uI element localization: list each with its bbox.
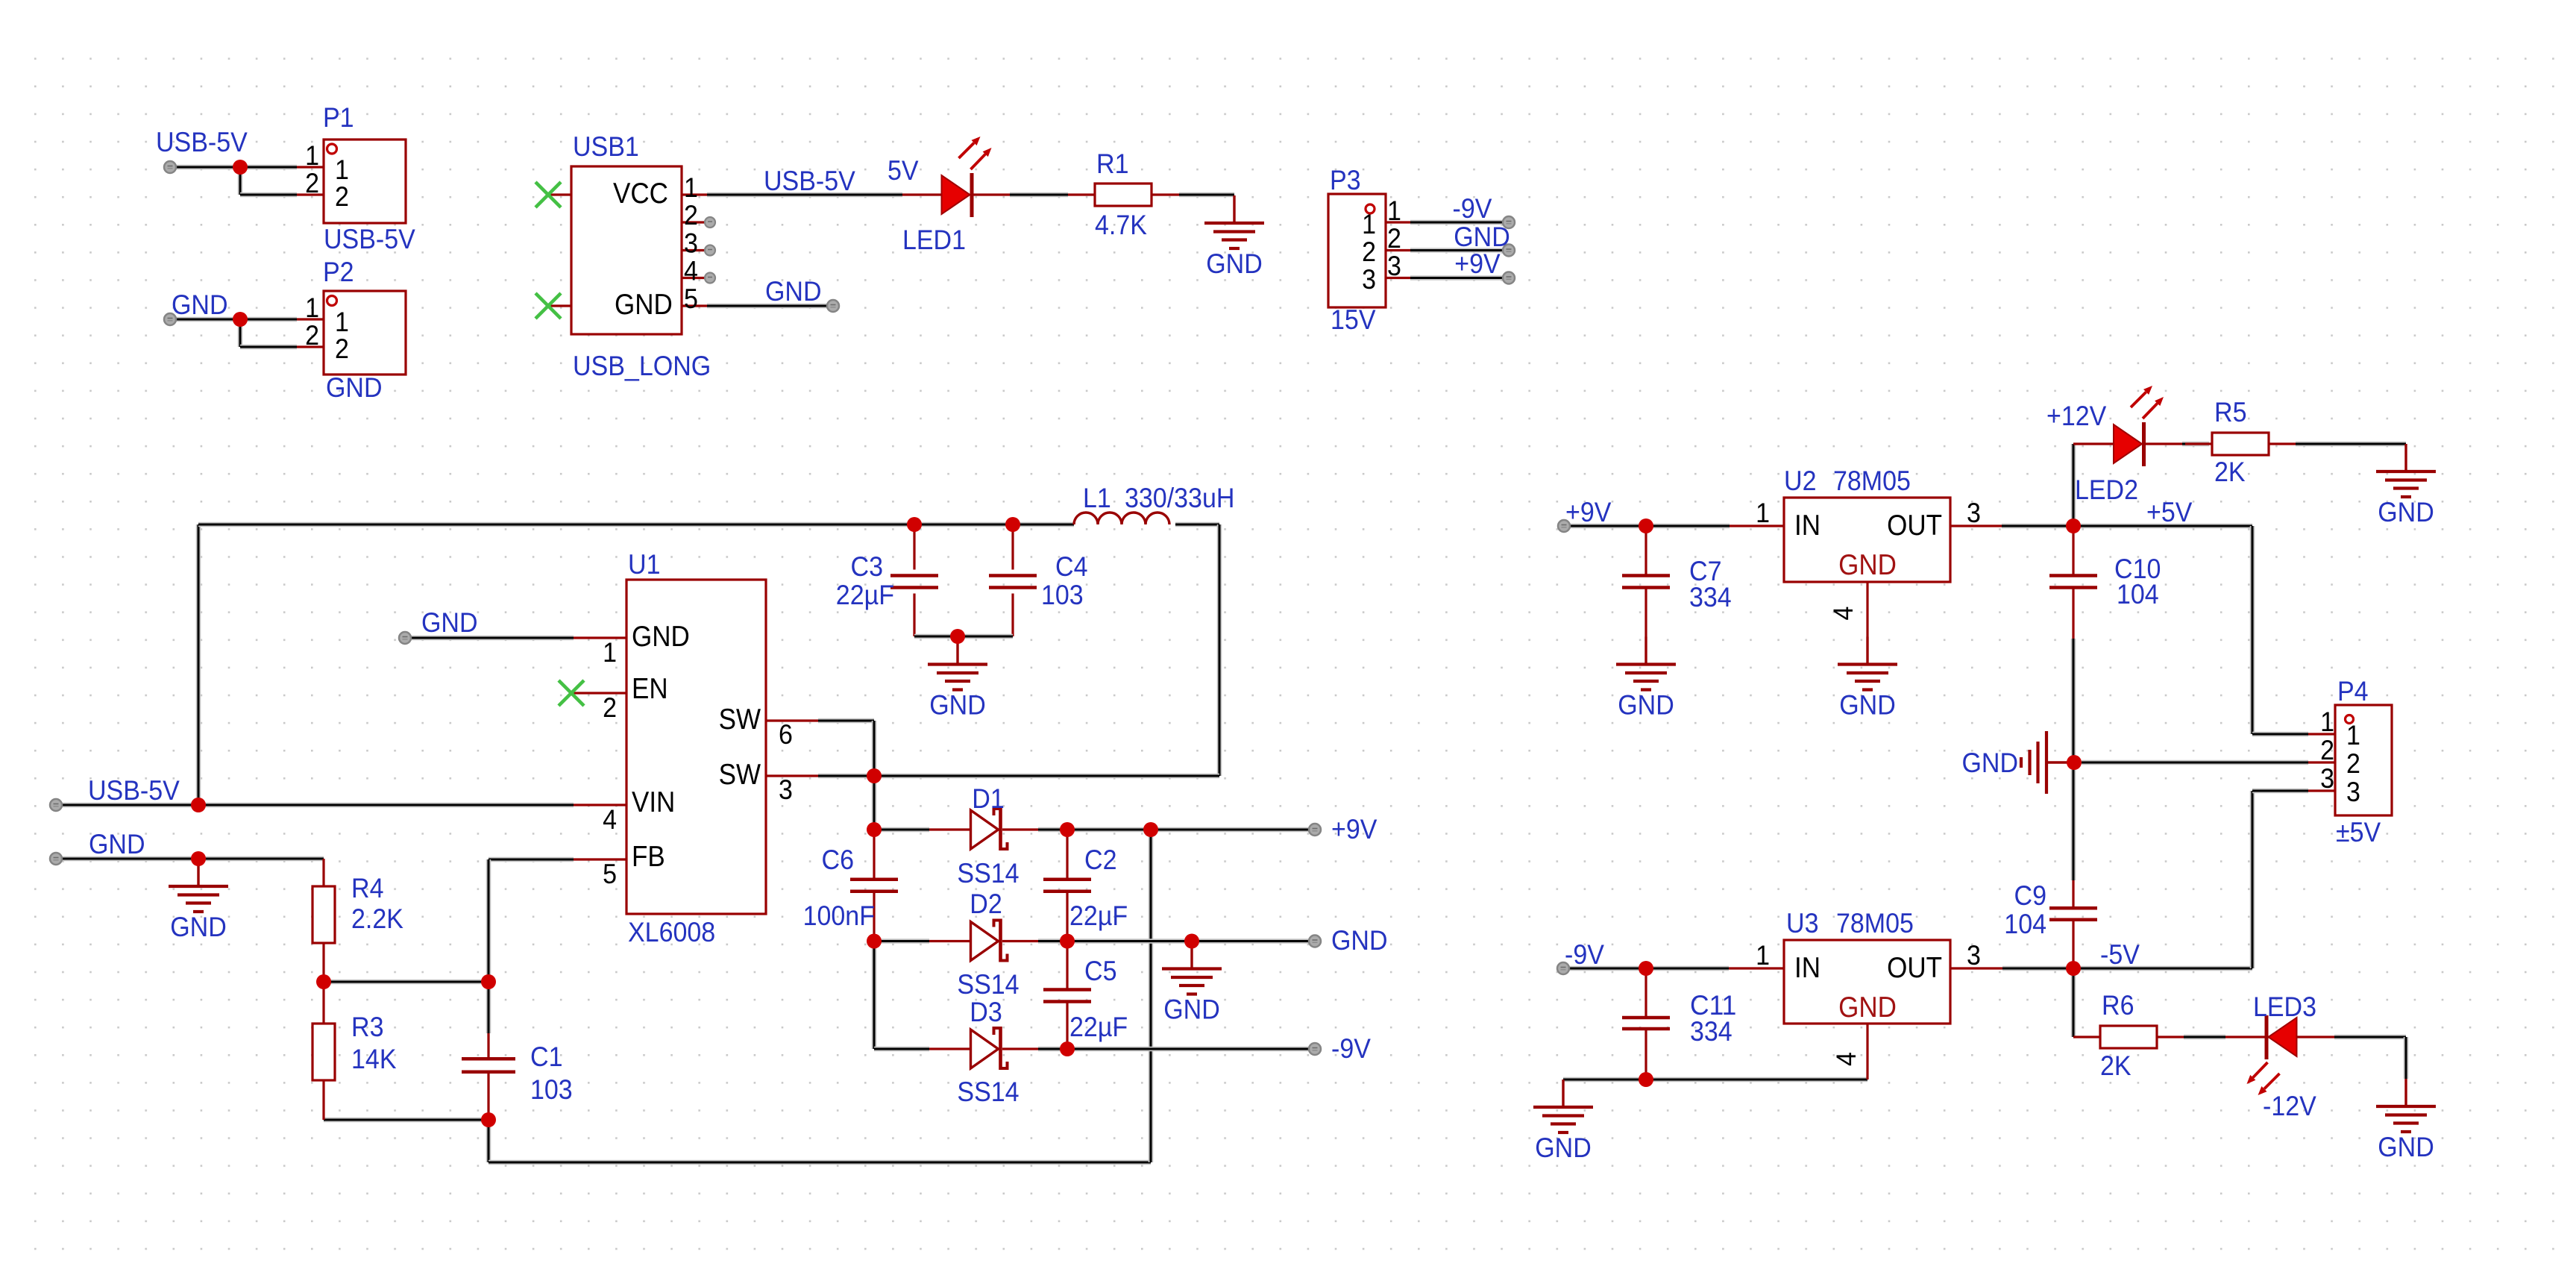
svg-text:3: 3 — [1967, 939, 1981, 971]
svg-text:USB-5V: USB-5V — [764, 165, 855, 196]
svg-text:5: 5 — [684, 283, 698, 314]
svg-text:2: 2 — [2320, 734, 2334, 765]
svg-text:GND: GND — [1839, 689, 1896, 721]
svg-text:2: 2 — [335, 181, 349, 212]
svg-text:103: 103 — [1041, 579, 1084, 610]
svg-text:GND: GND — [1163, 994, 1220, 1025]
svg-text:22µF: 22µF — [836, 579, 894, 610]
svg-text:+9V: +9V — [1331, 813, 1377, 845]
svg-text:SW: SW — [719, 759, 761, 791]
svg-text:1: 1 — [305, 140, 319, 171]
svg-text:3: 3 — [684, 228, 698, 259]
svg-text:22µF: 22µF — [1069, 900, 1128, 931]
svg-text:78M05: 78M05 — [1833, 465, 1911, 496]
svg-text:D3: D3 — [970, 996, 1002, 1027]
svg-text:USB_LONG: USB_LONG — [573, 350, 711, 381]
svg-text:R5: R5 — [2214, 396, 2247, 427]
svg-text:SS14: SS14 — [957, 1076, 1019, 1107]
svg-text:GND: GND — [1838, 991, 1897, 1024]
svg-text:3: 3 — [1967, 497, 1981, 528]
svg-text:104: 104 — [2117, 578, 2159, 610]
svg-text:2K: 2K — [2214, 456, 2246, 487]
svg-text:C2: C2 — [1084, 844, 1117, 875]
svg-text:EN: EN — [632, 673, 668, 705]
svg-text:GND: GND — [615, 289, 673, 321]
svg-text:LED3: LED3 — [2253, 991, 2316, 1022]
svg-text:GND: GND — [632, 621, 690, 653]
svg-text:P4: P4 — [2337, 675, 2369, 707]
svg-text:GND: GND — [1618, 689, 1674, 721]
svg-text:P1: P1 — [323, 101, 354, 133]
svg-text:4: 4 — [603, 803, 617, 835]
svg-text:C5: C5 — [1084, 955, 1117, 986]
svg-text:C9: C9 — [2014, 880, 2047, 911]
svg-text:USB-5V: USB-5V — [88, 774, 180, 806]
svg-text:2.2K: 2.2K — [351, 903, 403, 934]
svg-text:1: 1 — [603, 636, 617, 668]
svg-text:OUT: OUT — [1887, 952, 1942, 984]
svg-text:IN: IN — [1794, 952, 1821, 984]
svg-text:1: 1 — [2346, 719, 2360, 751]
svg-text:15V: 15V — [1331, 304, 1376, 335]
svg-text:USB-5V: USB-5V — [324, 223, 415, 254]
svg-text:LED2: LED2 — [2075, 474, 2138, 505]
svg-text:D1: D1 — [972, 783, 1005, 814]
svg-text:SS14: SS14 — [957, 857, 1019, 889]
svg-text:2: 2 — [335, 333, 349, 364]
svg-text:2K: 2K — [2100, 1050, 2132, 1081]
svg-text:334: 334 — [1690, 1015, 1732, 1047]
svg-text:2: 2 — [1387, 222, 1401, 254]
svg-text:3: 3 — [1387, 250, 1401, 281]
svg-text:R6: R6 — [2102, 989, 2134, 1021]
svg-text:14K: 14K — [351, 1043, 397, 1074]
svg-text:USB1: USB1 — [573, 131, 639, 162]
svg-text:GND: GND — [1206, 248, 1263, 279]
svg-text:-9V: -9V — [1331, 1033, 1371, 1064]
svg-text:1: 1 — [1756, 497, 1770, 528]
svg-text:GND: GND — [170, 911, 227, 942]
svg-text:100nF: 100nF — [803, 900, 875, 931]
svg-text:SS14: SS14 — [957, 968, 1019, 1000]
svg-text:GND: GND — [1535, 1132, 1592, 1163]
svg-text:3: 3 — [1362, 263, 1376, 295]
svg-text:GND: GND — [2378, 1131, 2434, 1162]
svg-text:XL6008: XL6008 — [628, 916, 715, 947]
svg-text:GND: GND — [421, 607, 478, 638]
svg-text:334: 334 — [1689, 581, 1732, 612]
svg-text:IN: IN — [1794, 510, 1821, 542]
svg-text:2: 2 — [2346, 748, 2360, 779]
svg-text:-12V: -12V — [2263, 1090, 2316, 1121]
svg-text:3: 3 — [2346, 776, 2360, 807]
svg-text:GND: GND — [765, 275, 822, 307]
svg-text:GND: GND — [2378, 496, 2434, 527]
svg-text:1: 1 — [2320, 706, 2334, 737]
svg-text:C6: C6 — [822, 844, 855, 875]
svg-text:4: 4 — [1827, 607, 1859, 621]
svg-text:2: 2 — [1362, 236, 1376, 267]
svg-text:1: 1 — [1756, 939, 1770, 971]
svg-text:C4: C4 — [1055, 551, 1088, 582]
svg-text:-9V: -9V — [1565, 939, 1604, 970]
svg-text:USB-5V: USB-5V — [156, 126, 248, 157]
svg-text:2: 2 — [305, 319, 319, 351]
svg-text:2: 2 — [305, 167, 319, 198]
svg-text:5: 5 — [603, 858, 617, 889]
svg-text:104: 104 — [2004, 908, 2046, 939]
svg-text:+9V: +9V — [1454, 248, 1500, 279]
svg-text:R1: R1 — [1096, 148, 1129, 179]
svg-text:GND: GND — [326, 372, 383, 403]
svg-text:3: 3 — [2320, 762, 2334, 794]
svg-text:D2: D2 — [970, 888, 1002, 919]
svg-text:U1: U1 — [628, 548, 661, 580]
svg-text:+5V: +5V — [2146, 496, 2192, 527]
svg-text:22µF: 22µF — [1069, 1011, 1128, 1042]
svg-text:4: 4 — [1830, 1052, 1862, 1066]
svg-text:SW: SW — [719, 704, 761, 736]
svg-text:FB: FB — [632, 841, 665, 873]
svg-text:103: 103 — [530, 1074, 573, 1105]
svg-text:C1: C1 — [530, 1041, 563, 1072]
svg-text:1: 1 — [305, 292, 319, 323]
svg-text:2: 2 — [603, 692, 617, 723]
svg-text:GND: GND — [929, 689, 986, 721]
svg-text:3: 3 — [779, 774, 793, 805]
svg-text:VCC: VCC — [613, 178, 668, 210]
svg-text:VIN: VIN — [632, 786, 675, 818]
svg-text:+9V: +9V — [1565, 496, 1611, 527]
svg-text:-5V: -5V — [2100, 939, 2140, 970]
svg-text:P2: P2 — [323, 256, 354, 287]
svg-text:OUT: OUT — [1887, 510, 1942, 542]
svg-text:R3: R3 — [351, 1011, 384, 1042]
svg-text:1: 1 — [684, 172, 698, 203]
svg-text:+12V: +12V — [2046, 400, 2106, 431]
svg-text:R4: R4 — [351, 872, 384, 903]
svg-text:GND: GND — [89, 828, 145, 859]
svg-text:C3: C3 — [851, 551, 884, 582]
svg-text:1: 1 — [1362, 208, 1376, 239]
svg-text:1: 1 — [1387, 195, 1401, 226]
svg-text:U2: U2 — [1784, 465, 1817, 496]
svg-text:LED1: LED1 — [902, 224, 966, 255]
svg-text:330/33uH: 330/33uH — [1125, 482, 1234, 513]
svg-text:6: 6 — [779, 718, 793, 750]
svg-text:4.7K: 4.7K — [1095, 209, 1147, 240]
svg-text:2: 2 — [684, 199, 698, 231]
svg-text:L1: L1 — [1083, 482, 1111, 513]
svg-text:-9V: -9V — [1453, 192, 1492, 224]
svg-text:4: 4 — [684, 255, 698, 286]
svg-text:GND: GND — [1838, 549, 1897, 581]
svg-text:78M05: 78M05 — [1836, 907, 1914, 939]
svg-text:5V: 5V — [888, 154, 919, 186]
svg-text:P3: P3 — [1330, 164, 1361, 195]
svg-text:GND: GND — [1962, 747, 2019, 778]
svg-text:U3: U3 — [1786, 907, 1819, 939]
svg-text:GND: GND — [1331, 924, 1388, 956]
svg-text:±5V: ±5V — [2336, 816, 2381, 848]
svg-text:GND: GND — [172, 289, 228, 320]
